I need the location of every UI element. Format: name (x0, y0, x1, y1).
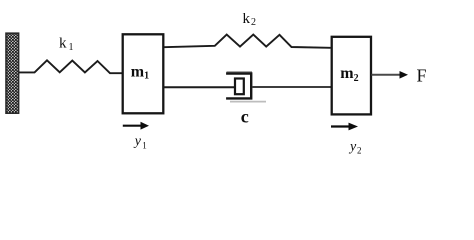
svg-text:k2: k2 (243, 11, 257, 28)
svg-text:k1: k1 (59, 36, 74, 53)
svg-text:F: F (417, 65, 427, 85)
svg-text:y2: y2 (348, 139, 362, 155)
svg-text:c: c (241, 107, 249, 127)
svg-text:y1: y1 (133, 134, 147, 151)
